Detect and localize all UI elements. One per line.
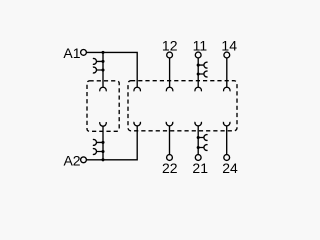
terminal 12 — [167, 52, 173, 58]
plug fork top 12 — [166, 87, 173, 91]
socket cup right upper on 11 riser — [198, 62, 207, 68]
svg-text:11: 11 — [193, 37, 208, 53]
svg-text:A1: A1 — [63, 45, 80, 61]
plug fork bottom 22 — [166, 122, 173, 126]
svg-text:21: 21 — [192, 160, 208, 176]
plug fork top 14 — [224, 87, 231, 91]
terminal A1 — [81, 50, 87, 56]
wire 21 down — [197, 126, 199, 155]
contact-unit plug fork bottom left (coil return) — [134, 122, 141, 126]
terminal 22 — [167, 155, 173, 161]
socket cup left lower on A2 riser — [93, 149, 103, 155]
contact-unit plug fork top left (coil feed) — [134, 87, 141, 91]
node A1 junction — [101, 51, 104, 54]
node A2 junction — [101, 158, 104, 161]
socket cup left lower on A1 riser — [93, 67, 103, 73]
plug fork bottom 21 — [195, 122, 202, 126]
wire A2 to riser — [86, 126, 137, 160]
wire 14 down — [226, 58, 228, 87]
svg-text:A2: A2 — [63, 152, 80, 168]
wire 24 down — [226, 126, 228, 155]
relay coil outline (dashed box) — [87, 81, 119, 132]
socket cup left upper on A1 riser — [93, 58, 103, 64]
terminal A2 — [81, 157, 87, 163]
svg-text:14: 14 — [221, 37, 237, 53]
terminal 24 — [224, 155, 230, 161]
terminal 11 — [195, 52, 201, 58]
terminal 21 — [195, 155, 201, 161]
wire 22 down — [169, 126, 171, 155]
coil plug fork bottom — [100, 122, 107, 126]
svg-text:24: 24 — [222, 160, 238, 176]
wire coil riser top — [102, 52, 104, 87]
svg-text:12: 12 — [162, 37, 178, 53]
wire 12 down — [169, 58, 171, 87]
socket cup right lower on 11 riser — [198, 71, 207, 77]
wire coil riser bottom — [102, 126, 104, 160]
coil plug fork top — [100, 87, 107, 91]
wire 11 down — [197, 58, 199, 87]
plug fork top 11 — [195, 87, 202, 91]
socket cup right upper on 21 riser — [198, 135, 207, 141]
socket cup right lower on 21 riser — [198, 145, 207, 151]
socket cup left upper on A2 riser — [93, 140, 103, 146]
wire A1 to riser — [86, 52, 137, 87]
relay contact unit outline (dashed box) — [128, 81, 237, 131]
terminal 14 — [224, 52, 230, 58]
svg-text:22: 22 — [162, 160, 178, 176]
plug fork bottom 24 — [223, 122, 230, 126]
